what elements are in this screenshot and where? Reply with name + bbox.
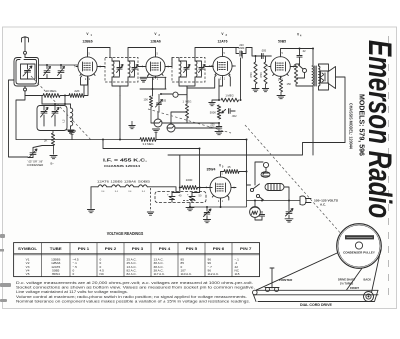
- wire tone bottom: [296, 64, 313, 86]
- gang dashed line right: [245, 125, 343, 236]
- svg-text:12BA6: 12BA6: [150, 39, 161, 43]
- svg-text:PIN 3: PIN 3: [132, 247, 144, 251]
- B minus bus: [103, 140, 345, 188]
- svg-text:35W4: 35W4: [207, 168, 216, 172]
- tube V2 12BA6: [146, 57, 165, 76]
- wire electro connections: [172, 188, 200, 207]
- speaker: [321, 71, 329, 83]
- wire IFT2 to V3: [195, 48, 223, 67]
- ground diode left: [211, 100, 213, 102]
- svg-text:2½ TURNS: 2½ TURNS: [340, 282, 354, 286]
- svg-text:1 MEG: 1 MEG: [225, 94, 233, 98]
- wire IFT2 returns: [179, 80, 195, 98]
- osc coil winding: [71, 108, 73, 126]
- line ballast component: [265, 184, 284, 191]
- wire trimmer return: [39, 76, 62, 79]
- svg-text:0: 0: [73, 272, 75, 276]
- svg-text:105–125 VOLTS: 105–125 VOLTS: [314, 199, 338, 203]
- IFT2 primary cap: [184, 68, 189, 70]
- svg-text:12BA6: 12BA6: [124, 180, 136, 184]
- svg-text:MEG: MEG: [186, 100, 192, 104]
- IFT2 primary coil: [179, 61, 181, 77]
- trimmer capacitor C1: [46, 65, 48, 79]
- wire grid return row: [25, 77, 88, 96]
- loop bottom terminal: [24, 88, 27, 91]
- svg-text:10 MEG: 10 MEG: [45, 89, 57, 93]
- V2 cathode network: [140, 77, 166, 96]
- svg-text:NC: NC: [100, 272, 105, 276]
- svg-text:Line voltage maintained at 117: Line voltage maintained at 117 volts for…: [16, 290, 128, 294]
- IFT2 secondary coil: [195, 61, 197, 77]
- wire V1 pin6 to IFT1: [99, 66, 105, 68]
- svg-text:PIN 5: PIN 5: [186, 247, 198, 251]
- svg-text:.002: .002: [232, 114, 238, 118]
- wire IFT1 returns: [112, 80, 128, 96]
- AC line wires: [247, 200, 301, 202]
- wire V4 plate: [281, 49, 314, 67]
- B plus feed line: [156, 140, 247, 172]
- pulley top label: [345, 235, 374, 239]
- pulley hub: [355, 242, 362, 249]
- wire speaker leads: [319, 64, 329, 90]
- antenna symbol: [22, 37, 29, 52]
- wire IFT1 to V2 grid: [128, 48, 156, 67]
- svg-text:Socket connections are shown a: Socket connections are shown as bottom v…: [16, 286, 255, 290]
- left B- wire: [9, 80, 34, 158]
- svg-text:DRIVE SHAFT: DRIVE SHAFT: [338, 277, 356, 281]
- table frame: [14, 243, 260, 277]
- svg-text:82 A.C.: 82 A.C.: [127, 272, 137, 276]
- ground V2 cathode: [140, 79, 146, 82]
- tube V3 12AT6: [213, 56, 232, 75]
- wire osc vertical: [42, 96, 65, 105]
- svg-text:PIN 1: PIN 1: [78, 247, 90, 251]
- svg-text:VOLTAGE READINGS: VOLTAGE READINGS: [107, 231, 144, 236]
- wire jack stems: [158, 112, 187, 124]
- pointer: [270, 268, 274, 288]
- loop antenna L1: [14, 58, 39, 87]
- svg-text:Nominal tolerance on component: Nominal tolerance on component values ma…: [16, 300, 250, 304]
- svg-text:12AT6: 12AT6: [97, 180, 109, 184]
- svg-text:470K: 470K: [250, 72, 253, 78]
- svg-text:DIAL CORD DRIVE: DIAL CORD DRIVE: [300, 303, 332, 307]
- IFT1 secondary coil: [128, 61, 130, 77]
- dial cord left run: [256, 253, 338, 291]
- phono tip jack: [173, 92, 178, 97]
- oscillator coil box L2: [37, 106, 67, 131]
- svg-text:CONDENSER: CONDENSER: [27, 163, 44, 167]
- dial cord inner run: [347, 268, 363, 291]
- electrolytic can box: [155, 192, 206, 203]
- svg-text:112 A.C.: 112 A.C.: [208, 272, 220, 276]
- wire B+ right bus: [313, 77, 345, 155]
- svg-text:12BE6: 12BE6: [111, 180, 123, 184]
- ground 3.3 MEG: [155, 133, 157, 140]
- ground osc coil: [67, 130, 74, 133]
- wire V1 cathode: [81, 76, 88, 96]
- left edge scan smudges: [0, 234, 11, 302]
- svg-text:500K: 500K: [210, 111, 216, 115]
- tube V5 35W4: [210, 177, 231, 198]
- wire V2 plate to IFT2: [148, 74, 156, 78]
- svg-text:Volume control at maximum; rad: Volume control at maximum; radio-phono s…: [16, 295, 247, 299]
- wire loop to V1 grid: [39, 64, 78, 66]
- svg-text:.05: .05: [163, 99, 167, 103]
- resistor tone 470K: [294, 64, 297, 84]
- ground V4 cathode: [280, 92, 282, 95]
- svg-text:POINTER: POINTER: [279, 278, 293, 282]
- bracket outline: [254, 290, 379, 301]
- V3 diode wires: [187, 75, 230, 88]
- svg-text:.02: .02: [302, 49, 306, 53]
- svg-text:A.C.: A.C.: [320, 203, 326, 207]
- wire V5 bottom rail: [190, 206, 247, 208]
- svg-text:CHASSIS 120044: CHASSIS 120044: [104, 164, 140, 168]
- svg-text:D.c. voltage measurements are: D.c. voltage measurements are at 20,000 …: [16, 281, 253, 285]
- svg-text:.005: .005: [261, 49, 267, 53]
- svg-text:110 A.C.: 110 A.C.: [181, 272, 193, 276]
- svg-text:50B5: 50B5: [138, 180, 151, 184]
- svg-text:22K: 22K: [74, 89, 79, 93]
- drive shaft: [364, 292, 374, 302]
- svg-text:MMF: MMF: [239, 46, 245, 50]
- pilot lamp: [250, 207, 261, 218]
- IF transformer T1 dashed can: [105, 58, 138, 83]
- svg-text:PIN 7: PIN 7: [240, 247, 252, 251]
- IFT2 secondary cap: [199, 68, 204, 70]
- svg-text:12AT6: 12AT6: [218, 39, 228, 43]
- right fold dashed line: [388, 36, 390, 302]
- V2 screen wire: [165, 58, 172, 67]
- svg-text:CHASSIS MODEL: 120044: CHASSIS MODEL: 120044: [348, 103, 353, 150]
- svg-text:FRONT: FRONT: [350, 286, 359, 290]
- IF transformer T2 dashed can: [172, 58, 205, 83]
- capacitor under V5: [206, 207, 208, 211]
- svg-text:BACK: BACK: [364, 277, 372, 281]
- ground 470K: [255, 84, 257, 88]
- shielded lead dashed: [150, 188, 152, 211]
- svg-text:MODELS: 579, 596: MODELS: 579, 596: [357, 94, 366, 156]
- osc tuning capacitor: [43, 106, 45, 127]
- wire V3 plate up: [223, 47, 237, 49]
- svg-text:117 A.C.: 117 A.C.: [154, 272, 166, 276]
- tone switch: [303, 69, 307, 73]
- svg-text:B−: B−: [51, 162, 55, 166]
- svg-text:I.F. = 455 K.C.: I.F. = 455 K.C.: [103, 158, 147, 164]
- osc trimmer capacitor: [54, 106, 56, 127]
- tone control shaft: [263, 162, 268, 167]
- IFT1 primary cap: [117, 68, 122, 70]
- IFT1 secondary cap: [132, 68, 137, 70]
- wire osc top: [42, 104, 71, 106]
- svg-text:1000: 1000: [186, 178, 193, 182]
- svg-text:35W4: 35W4: [52, 272, 60, 276]
- loop tuning capacitor: [25, 71, 31, 73]
- dial scale bar: [254, 290, 379, 295]
- condenser pulley: [337, 224, 382, 269]
- svg-text:470K: 470K: [260, 72, 263, 78]
- phono jack 1: [154, 119, 162, 127]
- wire to V4 grid: [256, 56, 272, 62]
- AC plug: [300, 196, 306, 205]
- IFT1 primary coil: [112, 61, 114, 77]
- svg-text:TUBE: TUBE: [50, 247, 63, 251]
- phono jack 2: [167, 124, 175, 132]
- wire mid verticals: [120, 86, 187, 140]
- svg-text:“.05” OR “.06”: “.05” OR “.06”: [27, 159, 43, 163]
- output transformer T3: [312, 66, 313, 86]
- dial cord right run: [372, 250, 381, 293]
- ground volume network: [215, 132, 223, 135]
- svg-text:3.3 MEG: 3.3 MEG: [142, 142, 153, 146]
- svg-text:PIN 4: PIN 4: [159, 247, 171, 251]
- svg-text:115: 115: [235, 272, 240, 276]
- heater filament bumps: [98, 185, 147, 187]
- svg-text:50B5: 50B5: [278, 39, 286, 43]
- line bypass cap: [288, 201, 290, 211]
- svg-text:PIN 6: PIN 6: [213, 247, 225, 251]
- tube V1 12BE6: [78, 57, 97, 76]
- svg-text:PIN 2: PIN 2: [105, 247, 117, 251]
- svg-text:SYMBOL: SYMBOL: [18, 247, 38, 251]
- svg-text:12BE6: 12BE6: [82, 39, 92, 43]
- gang dashed line left: [31, 76, 92, 141]
- tube V4 50B5: [271, 57, 291, 77]
- wire V1 plate to IFT1: [88, 48, 111, 58]
- AVC bus: [16, 139, 140, 141]
- radio-phono dashed link: [148, 109, 231, 133]
- ground mid jacks: [131, 121, 133, 125]
- svg-text:100: 100: [143, 98, 148, 102]
- svg-text:V5: V5: [26, 272, 30, 276]
- svg-text:150: 150: [287, 82, 292, 86]
- svg-text:CONDENSER PULLEY: CONDENSER PULLEY: [343, 251, 375, 255]
- svg-text:25: 25: [228, 165, 232, 169]
- ground near condenser: [53, 146, 55, 155]
- wire V5 pins: [210, 188, 236, 208]
- ground heater left: [90, 187, 92, 209]
- on-off switch: [250, 188, 253, 191]
- wire diode loads: [162, 58, 241, 128]
- small cap left of pilot: [261, 217, 263, 220]
- trimmer capacitor C2: [60, 65, 62, 79]
- ground electrolytic: [186, 208, 194, 211]
